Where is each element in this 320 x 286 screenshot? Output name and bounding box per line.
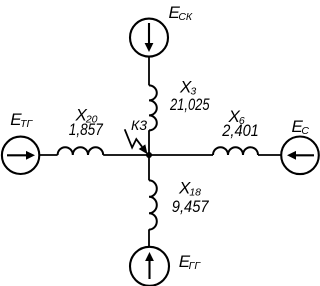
inductor X18 [149,180,157,229]
svg-text:ЕС: ЕС [292,117,310,137]
svg-text:ЕГГ: ЕГГ [179,252,202,272]
svg-text:9,457: 9,457 [172,197,209,216]
svg-text:ЕТГ: ЕТГ [10,110,33,130]
short-circuit lightning arrow K3 [125,129,148,154]
wire horizontal bus right (node K3 to E_C) [149,154,282,156]
source E_GG (bottom, arrow up) [130,247,169,286]
wire vertical top (E_CK to node K3) [148,57,150,155]
svg-text:1,857: 1,857 [69,120,103,139]
inductor X3 [149,85,157,130]
source E_CK (top, arrow down) [130,19,168,57]
svg-text:2,401: 2,401 [221,121,258,140]
inductor X20 [58,147,104,155]
node K3 junction dot [146,152,152,158]
svg-text:21,025: 21,025 [169,95,210,114]
svg-text:К3: К3 [131,117,147,133]
wire vertical bottom (node K3 to E_GG) [148,155,150,247]
svg-text:Х18: Х18 [178,179,201,199]
source E_C (right, arrow left) [281,137,319,175]
wire horizontal bus left (E_TG to node K3) [39,154,149,156]
inductor X6 [213,147,258,155]
svg-text:ЕСК: ЕСК [169,3,193,23]
source E_TG (left, arrow right) [2,137,39,174]
